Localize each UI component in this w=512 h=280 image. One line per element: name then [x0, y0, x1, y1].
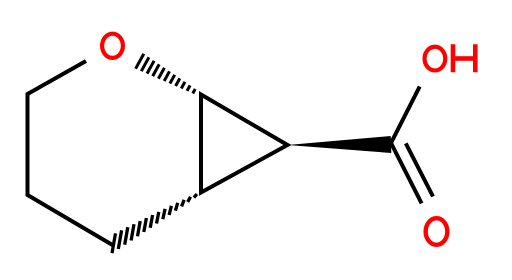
cyclopropane ring bonds C1-C6, C1-C7, C6-C7 [201, 95, 288, 193]
atom label O (carbonyl oxygen) [426, 218, 448, 245]
bond C8-O(H) [391, 87, 420, 144]
atom label O2 (ring oxygen) [102, 34, 123, 58]
atom label O of hydroxyl OH [425, 47, 446, 71]
double bond C8=O offset line [406, 143, 433, 196]
hashed wedge bond C6-C5 (stereo) [112, 194, 197, 253]
wire: left ring bonds O2-C3, C3-C4, C4-C5 [28, 61, 113, 245]
hashed wedge bond C1-O2 (stereo) [136, 54, 196, 94]
solid wedge bond C7-C8 (to carboxyl carbon) [288, 136, 392, 153]
atom label H of hydroxyl OH [453, 44, 475, 72]
double bond C8=O main line [391, 143, 422, 203]
